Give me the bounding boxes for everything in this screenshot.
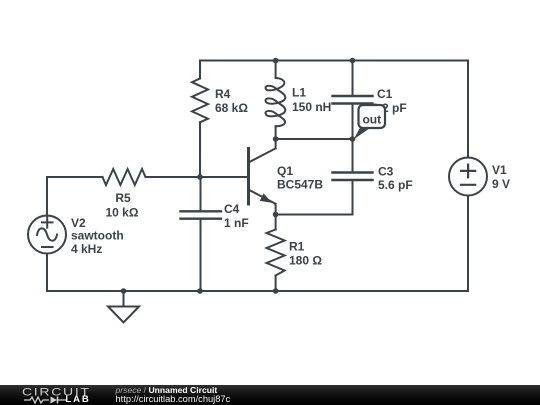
svg-text:180 Ω: 180 Ω bbox=[289, 254, 322, 268]
label L1 value bbox=[292, 86, 331, 115]
resistor R1 bbox=[267, 230, 285, 276]
node junction top rail / C1 bbox=[350, 58, 356, 64]
svg-text:9 V: 9 V bbox=[492, 177, 510, 191]
wire C1 bottom stub bbox=[352, 105, 354, 140]
footer bar bbox=[0, 385, 540, 405]
node junction bottom rail / R1 bbox=[273, 288, 279, 294]
svg-text:68 kΩ: 68 kΩ bbox=[215, 101, 248, 115]
svg-text:BC547B: BC547B bbox=[277, 178, 323, 192]
svg-text:V1: V1 bbox=[492, 163, 507, 177]
wire top rail bbox=[200, 60, 468, 62]
label R4 value bbox=[215, 87, 248, 115]
wire left column lower (V2 bottom to bottom rail) bbox=[46, 254, 48, 292]
capacitor C1 bbox=[333, 96, 373, 104]
svg-text:R5: R5 bbox=[115, 191, 131, 205]
svg-text:out: out bbox=[362, 113, 381, 127]
label C1 value bbox=[372, 87, 407, 115]
svg-text:L1: L1 bbox=[292, 86, 306, 100]
inductor L1 bbox=[266, 78, 286, 126]
svg-text:R4: R4 bbox=[215, 87, 231, 101]
svg-text:1 nF: 1 nF bbox=[224, 216, 249, 230]
wire C3 top stub bbox=[352, 139, 354, 172]
voltage source V2 (sawtooth) bbox=[28, 216, 66, 254]
wire R1 bottom stub bbox=[275, 276, 277, 292]
CircuitLab logo bbox=[22, 385, 91, 398]
node junction top rail / L1 bbox=[273, 58, 279, 64]
wire R4 top stub bbox=[199, 61, 201, 79]
wire C4 bottom stub bbox=[200, 220, 202, 291]
wire right column lower (V1 bottom to bottom rail) bbox=[467, 196, 469, 292]
wire L1 bottom stub bbox=[275, 126, 277, 139]
wire L1 top stub bbox=[275, 61, 277, 79]
wire ground stem bbox=[123, 291, 125, 307]
label V1 value bbox=[492, 163, 510, 191]
node junction bottom rail / C4 bbox=[197, 288, 203, 294]
node junction emitter / R1 / C3 bbox=[273, 212, 279, 218]
capacitor C4 bbox=[181, 211, 222, 218]
wire emitter net to C3 bbox=[276, 214, 353, 216]
svg-text:sawtooth: sawtooth bbox=[71, 229, 124, 243]
svg-text:150 nH: 150 nH bbox=[292, 100, 331, 114]
net flag out bbox=[354, 105, 386, 140]
resistor R5 bbox=[103, 169, 146, 185]
label R5 value bbox=[106, 191, 139, 220]
wire emitter stub bbox=[275, 204, 277, 215]
node junction bottom rail / ground bbox=[121, 288, 127, 294]
wire C4 top stub bbox=[200, 177, 202, 210]
label V2 value bbox=[71, 216, 124, 256]
svg-text:5.6 pF: 5.6 pF bbox=[378, 178, 413, 192]
svg-text:Q1: Q1 bbox=[277, 164, 293, 178]
node junction collector net / L1 bbox=[273, 136, 279, 142]
svg-text:C1: C1 bbox=[377, 87, 393, 101]
ground bbox=[108, 307, 139, 323]
wire C1 top stub bbox=[352, 61, 354, 96]
voltage source V1 bbox=[449, 158, 487, 196]
node junction base net / R4 / C4 bbox=[197, 174, 203, 180]
wire R1 top stub bbox=[275, 215, 277, 230]
wire left column upper (base net to V2 top) bbox=[46, 177, 48, 216]
wire R4 bottom stub bbox=[199, 122, 201, 177]
svg-text:10 kΩ: 10 kΩ bbox=[106, 206, 139, 220]
capacitor C3 bbox=[333, 173, 373, 181]
wire right column upper (to V1 top) bbox=[467, 61, 469, 158]
label C4 value bbox=[224, 202, 249, 230]
wire base net left segment bbox=[47, 176, 103, 178]
wire C3 bottom stub bbox=[352, 181, 354, 215]
svg-text:4 kHz: 4 kHz bbox=[71, 242, 102, 256]
label R1 value bbox=[289, 240, 322, 268]
footer text bbox=[116, 386, 231, 405]
svg-text:C4: C4 bbox=[224, 202, 240, 216]
wire bottom rail bbox=[47, 290, 468, 292]
label Q1 type bbox=[277, 164, 323, 192]
label C3 value bbox=[378, 165, 413, 193]
wire L1 to C1 column (collector net) bbox=[276, 138, 353, 140]
svg-text:C3: C3 bbox=[378, 165, 394, 179]
wire base net right segment (R5 to Q1 base) bbox=[146, 176, 248, 178]
transistor Q1 bbox=[249, 139, 276, 204]
svg-text:R1: R1 bbox=[289, 240, 305, 254]
resistor R4 bbox=[192, 79, 208, 123]
node out (collector net / C1 / C3) bbox=[350, 136, 356, 142]
